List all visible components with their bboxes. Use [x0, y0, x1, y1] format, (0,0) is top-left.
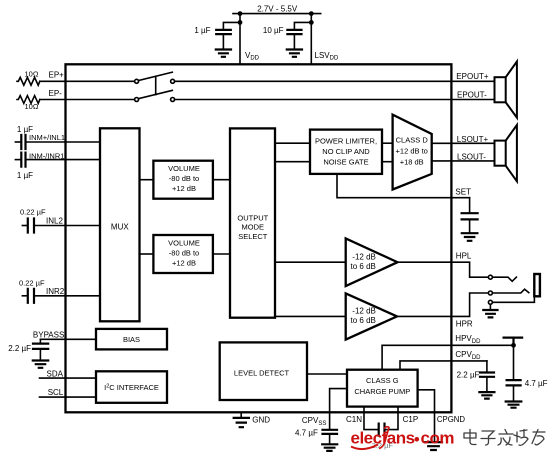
wire VOLUME2 to OMS [213, 253, 230, 255]
svg-text:2.2 µF: 2.2 µF [8, 344, 31, 353]
ground (4.7uF HPVDD) [506, 402, 522, 408]
block POWER LIMITER [310, 130, 382, 174]
svg-text:elecfans: elecfans [351, 429, 415, 448]
capacitor 1uF (INM+/INL1) [15, 141, 21, 143]
svg-text:10Ω: 10Ω [25, 102, 39, 111]
wire INM+/INL1 to MUX [26, 141, 100, 143]
watermark elecfans.com [351, 427, 455, 449]
node junction C1 tap [238, 20, 243, 25]
capacitor SET [469, 198, 471, 213]
wire LSOUT+ [432, 142, 495, 144]
char dian [464, 430, 476, 445]
wire LSOUT- [432, 160, 495, 162]
switch gang link bar [155, 76, 157, 94]
wire SET from power limiter [337, 174, 470, 198]
capacitor 2.2uF flying cap [379, 424, 385, 436]
block CLASS G CHARGE PUMP [347, 370, 418, 407]
capacitor 1uF (INM-/INR1) [15, 159, 21, 161]
svg-text:CLASS G: CLASS G [366, 376, 399, 385]
node junction HPVDD [511, 343, 516, 348]
switch arm EP- [138, 90, 172, 98]
wire MUX to VOLUME1 [140, 179, 154, 181]
svg-text:4.7 µF: 4.7 µF [525, 379, 548, 388]
svg-text:+12 dB to: +12 dB to [396, 147, 428, 156]
wire HPR out [397, 315, 451, 317]
wire to capacitor 10uF [294, 22, 311, 29]
svg-text:EP+: EP+ [49, 71, 65, 80]
ground (BYPASS cap) [33, 361, 48, 368]
svg-text:10 µF: 10 µF [263, 26, 284, 35]
wire INM-/INR1 to MUX [26, 159, 100, 161]
wire PL to CLASS D lower [382, 161, 393, 163]
svg-text:MODE: MODE [242, 223, 265, 232]
char zi [481, 431, 495, 445]
svg-text:OUTPUT: OUTPUT [237, 214, 268, 223]
svg-text:LEVEL DETECT: LEVEL DETECT [234, 368, 290, 377]
wire LEVEL DETECT to CLASS G [307, 373, 347, 375]
svg-text:CHARGE PUMP: CHARGE PUMP [354, 387, 410, 396]
wire HPVDD net [382, 345, 513, 369]
wire jack sleeve [493, 296, 535, 302]
svg-text:INL2: INL2 [46, 216, 63, 225]
wire to capacitor C 1uF [223, 22, 240, 29]
wire VOLUME1 to OMS [213, 179, 230, 181]
wire PL to CLASS D upper [382, 142, 393, 144]
svg-text:-12 dB: -12 dB [352, 252, 376, 261]
wire HPL out [398, 261, 452, 263]
ground GND pin [240, 412, 242, 417]
jack ring spring [493, 289, 529, 293]
capacitor 0.22uF (INL2) [22, 225, 27, 227]
wire INL2 to MUX [34, 225, 100, 227]
svg-text:C1N: C1N [346, 415, 362, 424]
wire OMS to HP amp L [275, 261, 346, 263]
svg-text:to 6 dB: to 6 dB [351, 316, 376, 325]
node junction LSVDD tap [309, 11, 314, 16]
svg-text:GND: GND [252, 416, 270, 425]
svg-text:INM+/INL1: INM+/INL1 [29, 133, 65, 142]
ground (SET cap) [462, 233, 478, 241]
wire SCL [40, 396, 97, 398]
svg-text:4.7 µF: 4.7 µF [295, 429, 318, 438]
svg-text:0.22 µF: 0.22 µF [20, 208, 46, 217]
op-amp HP right (-12dB to 6dB) [346, 293, 397, 339]
node junction C2 tap [309, 20, 314, 25]
svg-text:BIAS: BIAS [123, 335, 140, 344]
svg-text:C1P: C1P [403, 415, 419, 424]
svg-text:HPR: HPR [456, 319, 473, 328]
svg-text:HPL: HPL [456, 252, 472, 261]
jack tip spring [493, 277, 517, 281]
block BIAS [96, 329, 167, 350]
rail stub HPVDD [504, 338, 522, 346]
wire SDA [40, 377, 97, 379]
block text VOLUME 1 [168, 164, 200, 193]
char you [532, 430, 545, 445]
jack sleeve contact [488, 300, 492, 304]
wire VDD vertical [239, 14, 241, 65]
capacitor 0.22uF (INR2) [22, 295, 27, 297]
wire HPL to jack [451, 262, 488, 277]
amp CLASS D [393, 115, 432, 190]
block I2C INTERFACE [96, 371, 167, 403]
wire C1P [385, 407, 398, 430]
supply net 2.7V-5.5V wire [233, 13, 321, 15]
svg-text:+12 dB: +12 dB [172, 258, 196, 267]
main IC outline box [66, 64, 452, 412]
ground (CPGND) [425, 442, 442, 450]
capacitor 4.7uF (CPVSS) [323, 430, 338, 434]
wire EP+ to switch [40, 80, 135, 82]
switch pole EP- left contact [135, 98, 139, 102]
svg-text:-80 dB to: -80 dB to [169, 248, 199, 257]
wire EPOUT- [175, 99, 495, 101]
svg-text:-80 dB to: -80 dB to [169, 174, 199, 183]
wire MUX to VOLUME2 [140, 253, 154, 255]
switch pole EP+ left contact [135, 79, 139, 83]
wire OMS to PL upper [275, 142, 310, 144]
svg-text:EPOUT-: EPOUT- [457, 90, 487, 99]
wire C1N [364, 407, 377, 430]
char fa [498, 430, 513, 446]
svg-text:VOLUME: VOLUME [168, 238, 200, 247]
block text POWER LIMITER [315, 137, 377, 167]
svg-text:I2C INTERFACE: I2C INTERFACE [104, 383, 159, 392]
svg-text:1 µF: 1 µF [17, 171, 33, 180]
ground (1uF cap) [216, 50, 231, 57]
ground (2.2uF CPVDD) [479, 392, 494, 399]
capacitor 4.7uF (HPVDD) [513, 345, 515, 380]
op-amp HP left (-12dB to 6dB) [346, 238, 398, 286]
wire BYPASS [40, 338, 96, 340]
svg-text:CPGND: CPGND [437, 415, 466, 424]
speaker 2 (loudspeaker) [495, 141, 506, 166]
svg-text:1 µF: 1 µF [194, 26, 210, 35]
svg-text:EP-: EP- [49, 89, 63, 98]
svg-text:SDA: SDA [47, 369, 64, 378]
svg-text:-12 dB: -12 dB [352, 306, 376, 315]
block text VOLUME 2 [168, 238, 200, 267]
svg-text:VOLUME: VOLUME [168, 164, 200, 173]
ground (CPVSS cap) [322, 444, 337, 451]
jack ring contact [488, 291, 492, 295]
svg-text:EPOUT+: EPOUT+ [456, 72, 489, 81]
switch arm EP+ [138, 72, 172, 80]
svg-text:SELECT: SELECT [238, 232, 268, 241]
svg-text:10Ω: 10Ω [25, 70, 39, 79]
wire LSVDD vertical [310, 14, 312, 65]
wire CPVDD net [400, 361, 487, 370]
ground (jack sleeve) [489, 304, 491, 309]
svg-text:com: com [421, 429, 455, 448]
wire EPOUT+ [175, 80, 495, 82]
svg-text:LSOUT-: LSOUT- [457, 153, 486, 162]
char shao [514, 430, 528, 446]
watermark chinese characters [464, 430, 545, 446]
capacitor 2.2uF (CPVDD) [486, 361, 488, 372]
svg-text:NO CLIP AND: NO CLIP AND [322, 147, 370, 156]
capacitor 10uF [287, 30, 301, 34]
wire OMS to PL lower [275, 161, 310, 163]
svg-text:SCL: SCL [48, 388, 64, 397]
svg-text:+12 dB: +12 dB [172, 184, 196, 193]
svg-text:INR2: INR2 [46, 287, 65, 296]
wire EP- to switch [40, 99, 135, 101]
block LEVEL DETECT [220, 342, 307, 400]
block text CLASS D [396, 136, 429, 167]
svg-text:BYPASS: BYPASS [33, 331, 64, 340]
block text OUTPUT MODE SELECT [237, 214, 268, 242]
svg-text:CLASS D: CLASS D [396, 136, 429, 145]
switch pole EP- right contact [171, 98, 175, 102]
wire OMS to HP amp R [275, 315, 346, 317]
wire CPVSS [330, 389, 347, 430]
wire CPGND [418, 390, 435, 442]
resistor 10 ohm (EP+) [17, 77, 40, 85]
svg-text:NOISE GATE: NOISE GATE [323, 158, 368, 167]
capacitor 1uF [216, 30, 231, 34]
block OUTPUT MODE SELECT [230, 128, 275, 317]
svg-text:POWER LIMITER,: POWER LIMITER, [315, 137, 377, 146]
speaker 1 (earpiece) [495, 77, 506, 102]
headphone plug body [534, 274, 540, 296]
wire HPR to jack [451, 293, 488, 316]
jack tip contact [488, 275, 492, 279]
svg-text:+18 dB: +18 dB [400, 157, 424, 166]
svg-text:2.2 µF: 2.2 µF [457, 371, 480, 380]
block MUX [100, 128, 140, 321]
capacitor 2.2uF (BYPASS) [39, 339, 41, 343]
svg-text:2.7V - 5.5V: 2.7V - 5.5V [257, 4, 298, 13]
node junction VDD tap [238, 11, 243, 16]
block VOLUME 2 [153, 235, 213, 273]
switch pole EP+ right contact [171, 79, 175, 83]
block VOLUME 1 [153, 161, 213, 199]
svg-text:LSOUT+: LSOUT+ [457, 135, 489, 144]
resistor 10 ohm (EP-) [17, 96, 40, 104]
svg-text:0.22 µF: 0.22 µF [19, 278, 45, 287]
svg-text:SET: SET [455, 188, 471, 197]
svg-text:INM-/INR1: INM-/INR1 [29, 152, 64, 161]
ground (10uF cap) [287, 50, 302, 57]
svg-text:to 6 dB: to 6 dB [351, 262, 376, 271]
svg-text:MUX: MUX [111, 222, 129, 231]
wire INR2 to MUX [34, 295, 100, 297]
